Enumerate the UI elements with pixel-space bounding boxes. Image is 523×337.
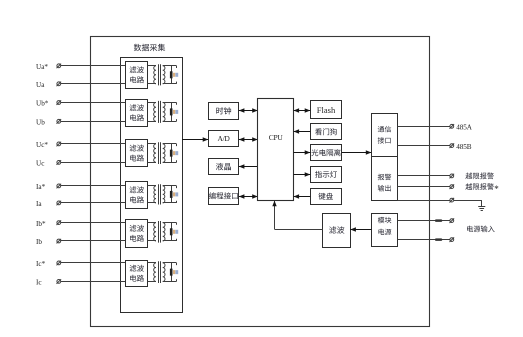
burden resistor R2 [170,108,173,115]
input terminal Ia [57,201,61,205]
wire keypad to CPU [294,196,311,198]
terminal over-limit alarm* [450,185,454,189]
wire CPU - Flash (bidirectional) [294,110,311,112]
svg-text:A/D: A/D [218,134,231,143]
wire Ic to filter [61,281,126,283]
svg-text:*: * [494,184,499,194]
input terminal Ub* [57,101,61,105]
block: A/D converter [209,131,239,147]
block: filter circuit 4 (lv bo dian lu) [126,182,148,209]
wire 485B [398,145,450,147]
wire Ia* to filter [61,185,126,187]
input terminal Ib* [57,221,61,225]
transformer T4 [154,186,156,203]
fuse F1 [435,219,442,222]
wire filter 4 to transformer primary [148,185,157,187]
terminal 485B [450,144,454,148]
input terminal Ic [57,280,61,284]
terminal 485A [450,124,454,128]
wire Ub* to filter [61,102,126,104]
input terminal Ub [57,119,61,123]
block: clock (shi zhong) [209,103,239,120]
wire transformer 4 secondary [163,185,177,187]
wire CPU to indicator LEDs [294,174,311,176]
svg-text:Flash: Flash [317,105,336,115]
wire Uc to filter [61,162,126,164]
block: module power supply (mo kuai dian yuan) [372,214,398,247]
wire A/D - CPU (bidirectional) [239,139,258,141]
wire transformer 1 secondary [163,65,177,67]
wire power input 1 [398,220,450,222]
wire filter 3 to transformer primary [148,143,157,145]
label: data acquisition [134,44,141,51]
wire clock - CPU (bidirectional) [239,110,258,112]
input terminal Uc [57,161,61,165]
label: power input (dian yuan shu ru) [467,226,473,232]
block: communication interface (tong xin jie kou) [372,114,398,157]
wire transformer 2 secondary [163,102,177,104]
wire Ib to filter [61,240,126,242]
terminal power input 2 [450,238,454,242]
block: programming interface (bian cheng jie kou) [209,188,239,205]
block: filter circuit 6 (lv bo dian lu) [126,261,148,287]
wire Uc* to filter [61,143,126,145]
svg-text:485B: 485B [456,143,471,151]
svg-text:Ub*: Ub* [36,100,49,108]
block: LCD (ye jing) [209,159,239,175]
wire Ia to filter [61,202,126,204]
ground symbol [478,206,485,208]
wire: acquisition to A/D [182,139,208,141]
input terminal Ia* [57,184,61,188]
wire over-limit alarm [398,175,450,177]
wire transformer 3 secondary [163,143,177,145]
burden resistor R6 [170,269,173,276]
block: power filter (lv bo) [323,214,351,248]
burden resistor R1 [170,71,173,78]
fuse F2 [435,238,442,241]
block: Flash memory [311,101,342,119]
wire power supply to filter [350,229,371,231]
transformer T6 [154,263,156,282]
input terminal Ua [57,82,61,86]
wire Ib* to filter [61,222,126,224]
svg-text:Ia*: Ia* [36,183,46,191]
terminal power input 1 [450,219,454,223]
block: opto isolation (guang dian ge li) [311,145,342,161]
wire watchdog to CPU [294,131,311,133]
svg-text:Ua*: Ua* [36,63,48,71]
input terminal Ua* [57,64,61,68]
wire alarm common to ground [398,200,450,202]
wire filter 5 to transformer primary [148,222,157,224]
block: filter circuit 1 (lv bo dian lu) [126,62,148,89]
wire over-limit alarm* [398,186,450,188]
wire Ua to filter [61,83,126,85]
block: keypad (jian pan) [311,189,342,205]
wire transformer 5 secondary [163,222,177,224]
svg-text:Uc*: Uc* [36,141,48,149]
block: indicator LEDs (zhi shi deng) [311,167,342,183]
wire 485A [398,126,450,128]
wire filter 1 to transformer primary [148,65,157,67]
block: alarm output (bao jing shu chu) [372,157,398,201]
svg-text:485A: 485A [456,124,472,132]
block: watchdog (kan men gou) [311,124,342,140]
wire filter 6 to transformer primary [148,262,157,264]
block: filter circuit 2 (lv bo dian lu) [126,100,148,127]
svg-text:Uc: Uc [36,160,44,168]
burden resistor R5 [170,228,173,235]
burden resistor R3 [170,150,173,157]
burden resistor R4 [170,191,173,198]
terminal over-limit alarm (yue xian bao jing) [450,174,454,178]
wire opto isolation to comms interface [342,152,372,154]
wire transformer 6 secondary [163,262,177,264]
wire filter 2 to transformer primary [148,102,157,104]
svg-text:Ib: Ib [36,238,42,246]
wire Ic* to filter [61,262,126,264]
wire power input 2 [398,239,450,241]
svg-text:Ib*: Ib* [36,220,46,228]
outer device boundary box [91,37,430,327]
block: data acquisition container (shu ju cai ji) [121,58,183,313]
transformer T5 [154,223,156,241]
wire Ua* to filter [61,65,126,67]
svg-text:Ic: Ic [36,279,42,287]
svg-text:Ic*: Ic* [36,260,46,268]
wire CPU to LCD [239,166,258,168]
svg-text:Ua: Ua [36,81,45,89]
input terminal Ib [57,239,61,243]
svg-text:CPU: CPU [269,133,284,142]
wire programming interface - CPU (bidirectional) [239,196,258,198]
block: filter circuit 5 (lv bo dian lu) [126,220,148,248]
block: filter circuit 3 (lv bo dian lu) [126,140,148,167]
svg-text:Ub: Ub [36,119,45,127]
input terminal Ic* [57,261,61,265]
transformer T2 [154,103,156,122]
wire CPU to opto isolation [294,152,311,154]
transformer T1 [154,66,156,84]
wire Ub to filter [61,121,126,123]
svg-text:Ia: Ia [36,200,42,208]
wire filter to CPU [275,229,324,231]
block: CPU U1 [258,99,294,201]
input terminal Uc* [57,142,61,146]
transformer T3 [154,144,156,163]
